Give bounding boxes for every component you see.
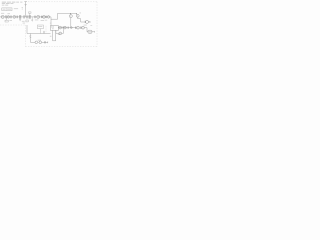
tiny mark 2 [22,8,23,11]
headset LS1 [88,30,92,33]
shield enclosure dashed border left lower [24,25,26,47]
ground under coil [19,19,21,21]
lower wire from box [56,30,59,33]
box inner mark [52,26,54,27]
capacitor C6 [40,16,43,18]
lamp P1 [69,15,72,18]
cross in M6 [64,27,66,29]
dotted vertical divider [45,26,47,34]
wire V3 down and across [78,17,85,22]
meter M5 [59,26,62,29]
sine mark in G1 [2,16,4,19]
headset coil left [89,31,90,32]
value label [35,19,39,22]
wire from lamp down [70,18,72,27]
trimmer lead to top [29,13,31,15]
bar in V1 [37,16,39,18]
tube V2 [43,16,46,19]
shield enclosure dashed border bottom [25,46,97,48]
V3 top lead [75,14,77,15]
bar in P1 [70,15,72,17]
value label [10,19,13,22]
antenna lead wire [25,2,27,17]
tube V3 [76,14,79,17]
mark in M9 [82,27,84,29]
meter M8 [77,26,80,29]
legend box text left [3,8,6,11]
terminal tick [47,41,49,43]
main wire left section [0,16,51,18]
capacitor C5 [34,16,37,19]
corner stub [58,33,60,35]
bar in M2 [13,16,15,18]
wire from M7 up [62,29,64,33]
meter M6 [64,26,67,29]
trimmer box [29,12,32,13]
note text [14,7,18,10]
capacitor C14 [67,27,70,29]
capacitor C3 [16,16,19,19]
relay box K1 [37,25,43,29]
headset terminal tick [94,31,96,33]
detector box U1 [51,26,59,31]
relay lead to bus [39,29,41,34]
tiny mark [22,6,23,9]
wire link down to box [50,17,52,26]
tiny label near link [50,22,52,25]
bar in V3 [77,15,79,17]
ground drop x32.2 [31,17,33,22]
drop after tick [90,24,92,27]
bar in M1 [7,16,9,18]
label above G1 [1,12,4,15]
label [84,24,87,27]
coil L1 [19,15,21,19]
value label V2 [45,19,48,22]
lamp top lead [69,14,71,15]
capacitor C2 [10,16,13,19]
crystal X1 zigzag [30,35,31,38]
meter M3 [47,16,50,19]
wire from headset [92,31,95,33]
title text line 3 [2,4,5,7]
box lead down left [53,30,56,40]
left down wire to bus [27,25,51,34]
bar in V2 [43,16,45,18]
capacitor C12 [44,41,47,43]
label above M1 [7,12,10,15]
headset coil right [90,31,91,32]
legend box [2,8,12,11]
small label [50,35,52,38]
shield enclosure dashed border right [96,2,98,47]
terminal tick [89,21,91,23]
capacitor C8 [84,21,87,23]
value label [41,19,44,22]
meter M11 [39,41,42,44]
bar in M5 [59,27,61,29]
antenna symbol [24,2,27,6]
wire mid bus [58,27,76,29]
wire bottom [42,41,48,43]
mark in M8 [77,27,79,29]
crystal X1 drop from bus [29,34,31,36]
box inner dot [52,27,53,30]
value label [23,22,26,25]
capacitor C11 [79,27,82,29]
title text line 1 [2,1,6,4]
meter M1 [7,16,10,19]
value label [22,20,25,23]
bar in M7 [59,32,61,34]
shield enclosure dashed border top [28,1,97,3]
legend box text right [7,8,11,11]
meter M4 [86,20,89,23]
label near V3 [80,12,82,15]
component box B1 [5,20,8,22]
capacitor C9 [62,27,65,29]
component box B2 [26,20,28,22]
meter M9 [82,26,85,29]
node dot V3 [75,12,78,15]
connector center dot [70,26,73,29]
generator G1 [1,15,4,18]
drop wire from node x6.6 [6,17,8,20]
node dot [37,41,40,44]
capacitor C4 [26,15,29,18]
shield enclosure dashed border left upper [0,24,26,26]
coil L2 [23,15,26,18]
legend box divider [5,8,7,11]
relay label [38,25,42,28]
transformer T1 windings [29,15,31,19]
capacitor C10 [74,27,77,29]
wire right of M4 [89,21,90,23]
capacitor C1 [5,15,8,18]
label [38,39,41,42]
link wire stepping up [51,13,76,19]
tube V1 [37,15,40,18]
connector ring [70,27,72,29]
meter M7 [59,32,62,35]
wire down from X1 [30,39,35,43]
meter M10 [35,41,38,44]
wire to headset [84,28,88,32]
small cap on bus [43,31,46,34]
title text line 2 [2,2,5,5]
capacitor C7 [45,16,48,18]
meter M2 [13,16,16,19]
node dot [69,12,72,15]
